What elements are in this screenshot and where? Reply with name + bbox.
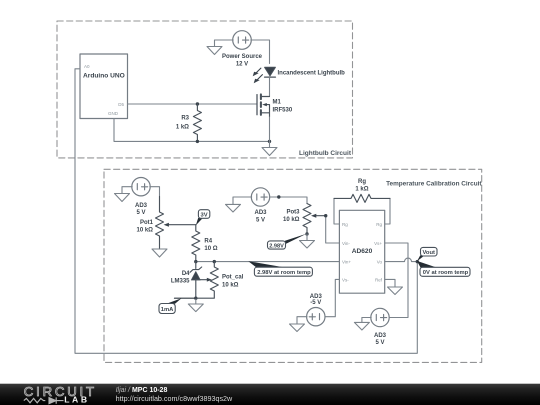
voltage source V4 AD3 -5V bbox=[307, 308, 325, 326]
svg-text:Pot1: Pot1 bbox=[140, 220, 154, 226]
junction Pot3 bottom bbox=[305, 232, 308, 235]
ground (Ref) bbox=[388, 287, 403, 295]
wire V1 positive to lightbulb bbox=[251, 40, 270, 64]
wire Vo to Vout node with hop bbox=[385, 258, 418, 262]
svg-text:Vs+: Vs+ bbox=[374, 241, 382, 246]
svg-text:Rg: Rg bbox=[358, 179, 366, 185]
svg-text:AD3: AD3 bbox=[135, 203, 148, 209]
annotation flag 1mA bbox=[175, 297, 196, 299]
wire V3 positive to Pot3 bbox=[269, 197, 307, 204]
svg-text:Pot3: Pot3 bbox=[286, 210, 300, 216]
svg-text:Ref: Ref bbox=[375, 277, 383, 282]
svg-text:Pot_cal: Pot_cal bbox=[222, 275, 244, 281]
node flag 3V bbox=[196, 218, 202, 226]
svg-text:Vout: Vout bbox=[422, 250, 435, 256]
svg-text:0V at room temp: 0V at room temp bbox=[423, 270, 469, 276]
svg-text:AD620: AD620 bbox=[352, 248, 373, 255]
svg-text:R3: R3 bbox=[181, 116, 189, 122]
junction Pot_cal top bbox=[213, 260, 216, 263]
D4 adj arrow to Pot_cal wiper bbox=[196, 279, 207, 281]
svg-text:D4: D4 bbox=[182, 271, 190, 277]
junction D4 bottom bbox=[194, 297, 197, 300]
svg-text:2.98V: 2.98V bbox=[269, 243, 284, 249]
svg-text:Lightbulb Circuit: Lightbulb Circuit bbox=[299, 150, 352, 157]
svg-text:Arduino UNO: Arduino UNO bbox=[83, 73, 125, 80]
svg-text:A0: A0 bbox=[84, 64, 90, 69]
Arduino UNO module bbox=[80, 54, 128, 119]
wire V5 negative to ground bbox=[362, 318, 371, 323]
wire A0 to Vout node (left/bottom run) bbox=[75, 69, 417, 354]
wire Vs- to V4 bbox=[325, 279, 340, 316]
svg-text:LAB: LAB bbox=[64, 395, 89, 405]
ground (V2) bbox=[115, 194, 130, 202]
svg-text:IRF530: IRF530 bbox=[273, 108, 293, 114]
wire lamp to M1 drain bbox=[269, 78, 271, 97]
svg-text:Vin+: Vin+ bbox=[342, 260, 351, 265]
svg-text:GND: GND bbox=[108, 111, 119, 116]
diode D4 LM335 bbox=[195, 262, 197, 269]
svg-text:Vs-: Vs- bbox=[342, 277, 349, 282]
lightbulb circuit dashed box bbox=[57, 21, 353, 158]
resistor Rg 1k bbox=[334, 194, 390, 202]
junction R3 bottom bbox=[196, 140, 199, 143]
resistor R4 bbox=[192, 225, 200, 262]
svg-text:1mA: 1mA bbox=[161, 307, 174, 313]
svg-text:10 kΩ: 10 kΩ bbox=[137, 228, 154, 234]
svg-text:R4: R4 bbox=[204, 239, 212, 245]
svg-text:3V: 3V bbox=[201, 212, 208, 218]
ground (V3) bbox=[226, 204, 241, 212]
junction D5/R3 bbox=[196, 102, 199, 105]
junction V3 output bbox=[277, 195, 280, 198]
potentiometer Pot3 10k bbox=[303, 204, 311, 235]
potentiometer Pot1 10k bbox=[156, 197, 164, 250]
svg-text:10 kΩ: 10 kΩ bbox=[283, 217, 300, 223]
wire V1 negative to ground bbox=[215, 40, 234, 47]
voltage source V5 AD3 5V (bottom) bbox=[371, 308, 389, 326]
svg-text:2.98V at room temp: 2.98V at room temp bbox=[257, 270, 311, 276]
ground (V5) bbox=[354, 322, 369, 330]
svg-text:5 V: 5 V bbox=[256, 218, 265, 224]
wire Rg left pin bbox=[334, 198, 339, 224]
wire node line R4 bottom to AD620 Vin+ bbox=[196, 261, 340, 263]
svg-text:10 Ω: 10 Ω bbox=[204, 246, 217, 252]
wire D5 to M1 gate bbox=[128, 103, 258, 105]
svg-text:1 kΩ: 1 kΩ bbox=[176, 125, 189, 131]
annotation flag 0V at room temp bbox=[417, 261, 437, 268]
svg-text:AD3: AD3 bbox=[310, 294, 323, 300]
lamp D1 Incandescent Lightbulb (LED style symbol) bbox=[265, 67, 276, 76]
ground (D4/Pot_cal) bbox=[188, 298, 203, 311]
svg-text:Vo: Vo bbox=[377, 260, 383, 265]
svg-text:Vin-: Vin- bbox=[342, 241, 350, 246]
transistor M1 IRF530 (NMOS) bbox=[256, 95, 258, 115]
svg-text:5 V: 5 V bbox=[375, 340, 384, 346]
voltage source V3 AD3 5V (middle) bbox=[251, 188, 269, 206]
ground (lightbulb rail) bbox=[262, 141, 277, 155]
svg-text:Temperature Calibration Circui: Temperature Calibration Circuit bbox=[386, 180, 482, 187]
junction M1 source / rail bbox=[268, 140, 271, 143]
svg-text:AD3: AD3 bbox=[254, 210, 267, 216]
wire V4 to ground bbox=[297, 317, 307, 324]
svg-text:10 kΩ: 10 kΩ bbox=[222, 283, 239, 289]
junction R4/D4 bbox=[194, 260, 197, 263]
svg-text:5 V: 5 V bbox=[136, 210, 145, 216]
op-amp U1 AD620 bbox=[339, 210, 384, 293]
svg-text:http://circuitlab.com/c8wwf389: http://circuitlab.com/c8wwf3893qs2w bbox=[116, 394, 233, 403]
voltage source V2 AD3 5V (left) bbox=[132, 178, 150, 196]
resistor R3 bbox=[193, 104, 201, 141]
svg-text:D5: D5 bbox=[118, 102, 124, 107]
ground (Pot3) bbox=[300, 234, 315, 248]
ground (Pot1 bottom) bbox=[152, 249, 167, 257]
wire V3 negative to ground bbox=[233, 197, 252, 204]
svg-text:AD3: AD3 bbox=[374, 333, 387, 339]
potentiometer Pot_cal 10k bbox=[196, 262, 219, 299]
svg-text:Power Source: Power Source bbox=[222, 54, 263, 60]
wire Rg right pin bbox=[385, 198, 390, 224]
svg-text:Rg: Rg bbox=[342, 222, 348, 227]
svg-text:-5 V: -5 V bbox=[310, 300, 321, 306]
node flag 2.98V bbox=[285, 234, 307, 245]
temperature calibration circuit dashed box bbox=[104, 169, 482, 362]
svg-text:1 kΩ: 1 kΩ bbox=[355, 187, 368, 193]
svg-text:Rg: Rg bbox=[376, 222, 382, 227]
wire Ref to ground bbox=[385, 279, 395, 287]
wire V2 positive to Pot1 bbox=[150, 187, 160, 197]
node flag Vout bbox=[417, 255, 424, 261]
svg-text:12 V: 12 V bbox=[236, 61, 248, 67]
voltage source V1 Power Source 12 V bbox=[233, 31, 252, 50]
junction Vout node bbox=[416, 260, 419, 263]
wire Arduino GND to ground rail bbox=[114, 119, 270, 142]
junction Pot3 wiper bbox=[324, 214, 327, 217]
svg-text:M1: M1 bbox=[273, 100, 282, 106]
ground (power source) bbox=[207, 47, 222, 55]
svg-text:Incandescent Lightbulb: Incandescent Lightbulb bbox=[278, 71, 346, 77]
annotation flag 2.98V at room temp bbox=[248, 261, 285, 267]
svg-text:LM335: LM335 bbox=[171, 279, 190, 285]
wire Pot3 wiper to AD620 Vin- bbox=[326, 216, 340, 243]
ground (V4) bbox=[290, 324, 305, 332]
wire Vs+ to V5 bbox=[385, 243, 408, 318]
wire V2 negative to ground bbox=[122, 187, 132, 194]
svg-text:Iljai / MPC 10-28: Iljai / MPC 10-28 bbox=[116, 387, 168, 394]
